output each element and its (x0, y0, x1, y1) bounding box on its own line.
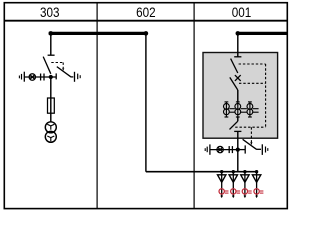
cable feeder arrow 2 (229, 170, 240, 198)
node feeder VDS junction 001 (236, 148, 240, 152)
earthing switch blade 001 (243, 139, 261, 149)
circuit breaker X 001 (235, 75, 241, 81)
interlock dashed link 303 (51, 63, 63, 69)
wire feeder stub 001 (237, 33, 239, 56)
current transformer 001 phase C (247, 102, 253, 117)
node busbar junction 001 (236, 31, 241, 36)
voltage indicator lamp 303 (29, 74, 35, 80)
wire VDS branch 303 (24, 76, 51, 78)
earth symbol left 001 (205, 144, 210, 154)
interlock dashed links 001 (235, 64, 265, 142)
voltage indicator lamp 001 (217, 146, 223, 152)
label panel 303 (40, 5, 60, 20)
fuse 303 (48, 98, 55, 113)
disconnector 001 upper blade (open) (231, 59, 238, 73)
wire feeder stub 303 (50, 33, 52, 55)
wire links CT cluster (229, 109, 258, 113)
node busbar junction 303 (49, 31, 54, 36)
disconnector 303 fixed contact bar (48, 54, 55, 56)
interlock arrowhead 001 (250, 142, 252, 145)
wire earthing branch 303 (51, 76, 56, 78)
wire feeder below cubicle 001 (237, 131, 239, 171)
cable feeder arrow 4 (252, 170, 263, 198)
svg-text:001: 001 (232, 5, 252, 20)
wire VDS branch 001 (210, 149, 238, 151)
wire 001 CT to lower switch (237, 117, 239, 121)
busbar segment 001 (238, 32, 287, 35)
disconnector 001 upper fixed contact bar (234, 56, 241, 58)
earth symbol right 303 (75, 72, 81, 82)
wire 001 breaker to CT (237, 90, 239, 102)
transformer 303 winding 2 (45, 131, 56, 142)
busbar segment 303-602 (49, 32, 146, 35)
wire tie 602 to 001 cable bus (146, 171, 258, 173)
earth symbol left 303 (19, 72, 24, 82)
wire earthing branch 001 (238, 149, 245, 151)
earthing switch blade 303 (57, 67, 74, 77)
earthing switch contact bar 001 (244, 145, 246, 153)
switchgear cubicle 001 (203, 53, 278, 139)
earthing switch contact bar 303 (55, 73, 57, 79)
capacitor divider 001 (229, 146, 232, 153)
capacitor divider 303 (41, 74, 44, 81)
earth symbol right 001 (262, 144, 268, 155)
disconnector 001 lower fixed contact bar (234, 130, 241, 132)
node feeder VDS junction 303 (49, 75, 53, 79)
transformer 303 winding 1 (45, 122, 56, 133)
svg-text:303: 303 (40, 5, 60, 20)
switch blade 001 middle (230, 77, 238, 90)
label panel 602 (136, 5, 156, 20)
label panel 001 (232, 5, 252, 20)
wire riser 602 (145, 33, 147, 171)
interlock arrowhead 303 (62, 68, 64, 71)
current transformer 001 phase B (235, 102, 241, 117)
current transformer 001 phase A (224, 102, 230, 117)
disconnector 001 lower blade (open) (230, 121, 238, 129)
svg-text:602: 602 (136, 5, 156, 20)
node busbar junction 602 (144, 31, 149, 36)
wire feeder to fuse 303 (50, 77, 52, 123)
cable feeder arrow 1 (218, 170, 229, 198)
cable feeder arrow 3 (241, 170, 252, 198)
disconnector 303 blade (open) (43, 57, 51, 74)
